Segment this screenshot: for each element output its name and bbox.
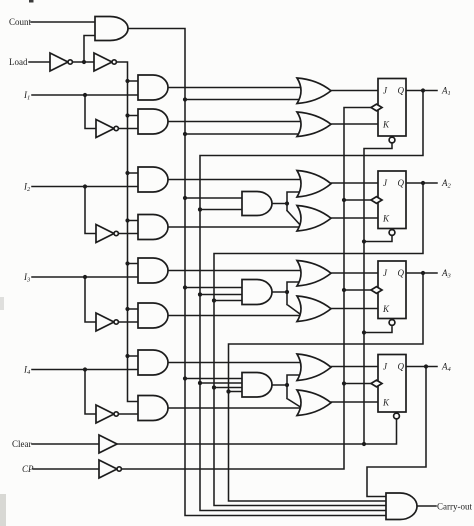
- svg-text:CP: CP: [22, 464, 34, 474]
- svg-text:Q: Q: [398, 362, 405, 372]
- svg-text:Count: Count: [9, 17, 32, 27]
- svg-text:K: K: [382, 214, 390, 224]
- svg-text:K: K: [382, 120, 390, 130]
- svg-text:K: K: [382, 398, 390, 408]
- svg-text:Q: Q: [398, 268, 405, 278]
- svg-text:Load: Load: [9, 57, 28, 67]
- svg-text:Clear: Clear: [12, 439, 32, 449]
- svg-text:Q: Q: [398, 86, 405, 96]
- svg-text:Q: Q: [398, 178, 405, 188]
- svg-text:K: K: [382, 304, 390, 314]
- svg-text:Carry-out: Carry-out: [437, 502, 472, 512]
